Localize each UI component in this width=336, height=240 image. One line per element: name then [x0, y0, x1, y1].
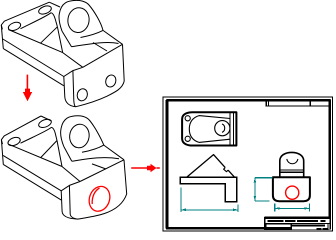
bottom dim [275, 203, 310, 211]
plate front-bottom edge [3, 49, 64, 86]
smile arc [287, 159, 298, 164]
leg front-left vertical [61, 191, 78, 219]
left small hole top [185, 116, 190, 121]
rib band left edge [64, 147, 72, 162]
boss edge tangent to hole 2 [21, 13, 52, 29]
small hole ellipse 1 (left) [7, 136, 22, 147]
leg end face top edge [64, 67, 83, 76]
block right edge [124, 160, 127, 194]
plate top face outline [1, 116, 41, 144]
bottom edge line [265, 229, 330, 231]
block top-front edge [83, 44, 123, 67]
rib left steep edge [57, 141, 62, 167]
title block left edge [264, 217, 266, 230]
leg corner vertical [73, 71, 76, 107]
lug outline [59, 0, 103, 31]
small hole ellipse 2 (top) [38, 4, 53, 15]
lug outline [61, 116, 104, 147]
red sketch ellipse on front face [86, 183, 113, 214]
block top-front edge [80, 160, 124, 182]
sheet inner thick border [167, 100, 330, 228]
red hole circle [286, 186, 299, 199]
row divider line [265, 223, 330, 225]
small text bars bottom right [317, 228, 322, 230]
rib band bottom edge [72, 158, 119, 162]
boss edge tangent to hole 2 [21, 127, 52, 143]
plate left bottom corner vertical [2, 144, 4, 165]
leg front-left vertical [64, 77, 76, 107]
plate front-top edge [3, 39, 64, 77]
plate left bottom corner vertical [2, 29, 4, 49]
rib band left edge [62, 31, 71, 46]
rib-block intersection short edge [93, 43, 107, 52]
lug big hole ellipse [66, 6, 90, 34]
plate top-right edge (short, left of lug) [49, 2, 60, 7]
vertical dim [255, 178, 272, 201]
boss circle [215, 121, 230, 136]
boss edge bend to junction [51, 13, 57, 27]
arrow stem [26, 75, 28, 90]
block ridge edge [104, 145, 124, 160]
arrowheads [181, 208, 186, 211]
arrow head [23, 89, 32, 102]
plate left corner thickness [1, 25, 2, 29]
notch [224, 168, 228, 172]
rib band top edge right of lug [82, 145, 104, 152]
plate front-top edge [3, 155, 61, 190]
plate top-right edge (short, left of lug) [41, 116, 52, 121]
plate front-bottom edge [3, 164, 61, 200]
side view dimensions [254, 178, 310, 212]
block ridge edge [103, 30, 123, 44]
sheet outer thin border [163, 97, 332, 231]
dimension line [181, 209, 238, 211]
boss edge bend to junction [52, 127, 58, 140]
front view dimension [181, 188, 238, 213]
rib band top edge right of lug [81, 30, 104, 37]
block front hole A [76, 87, 89, 102]
block top face left edge [62, 167, 80, 182]
extension lines [181, 188, 238, 213]
block top face left edge [63, 53, 83, 68]
leg end face top edge [61, 182, 80, 191]
leg corner vertical [69, 185, 77, 219]
row1 text bars [267, 220, 325, 222]
block front hole B [104, 74, 117, 89]
bottom row long text bar [292, 224, 325, 226]
title block top thick edge [264, 216, 329, 218]
triangle rib [187, 155, 235, 178]
plate left corner thickness [1, 140, 2, 144]
cell divider [291, 224, 328, 230]
block front face bottom edge with rounded corner [76, 81, 125, 107]
front view L-shape [180, 177, 237, 202]
plate top face outline [1, 2, 49, 29]
dome horizontal lines [280, 170, 304, 172]
small hole ellipse 2 (top) [38, 118, 53, 129]
rib footprint edge left [41, 141, 57, 158]
boss U outline [189, 116, 230, 143]
title block background [265, 219, 330, 231]
rib left steep edge [57, 27, 62, 53]
body outline [273, 177, 310, 201]
dome outline [280, 152, 304, 177]
left small hole bottom [185, 136, 190, 141]
right vertical edges [230, 112, 233, 145]
boss edge from near hole 1 [9, 144, 63, 166]
rib footprint edge left [41, 27, 58, 43]
arrow head [147, 164, 157, 172]
small hole ellipse 1 (left) [7, 21, 22, 32]
block right edge [123, 44, 125, 81]
revision strip top-right [266, 102, 330, 106]
bottom row left thick band [265, 228, 292, 230]
inner counterbore arc [222, 124, 225, 132]
rib-block intersection short edge [92, 164, 106, 169]
bottom row left cell [266, 224, 291, 227]
boss edge from near hole 1 [8, 30, 62, 53]
rib band bottom edge [72, 42, 119, 46]
top view outline [182, 112, 236, 145]
lug big hole ellipse [68, 123, 90, 149]
arrow stem [131, 167, 160, 169]
block front bottom edge (large fillet) [78, 194, 127, 219]
